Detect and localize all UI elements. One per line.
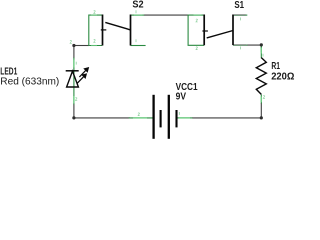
- svg-text:S2: S2: [132, 0, 144, 11]
- svg-text:9V: 9V: [176, 92, 187, 103]
- svg-text:220Ω: 220Ω: [271, 71, 294, 82]
- svg-text:S1: S1: [234, 0, 244, 11]
- svg-text:Red (633nm): Red (633nm): [0, 77, 59, 88]
